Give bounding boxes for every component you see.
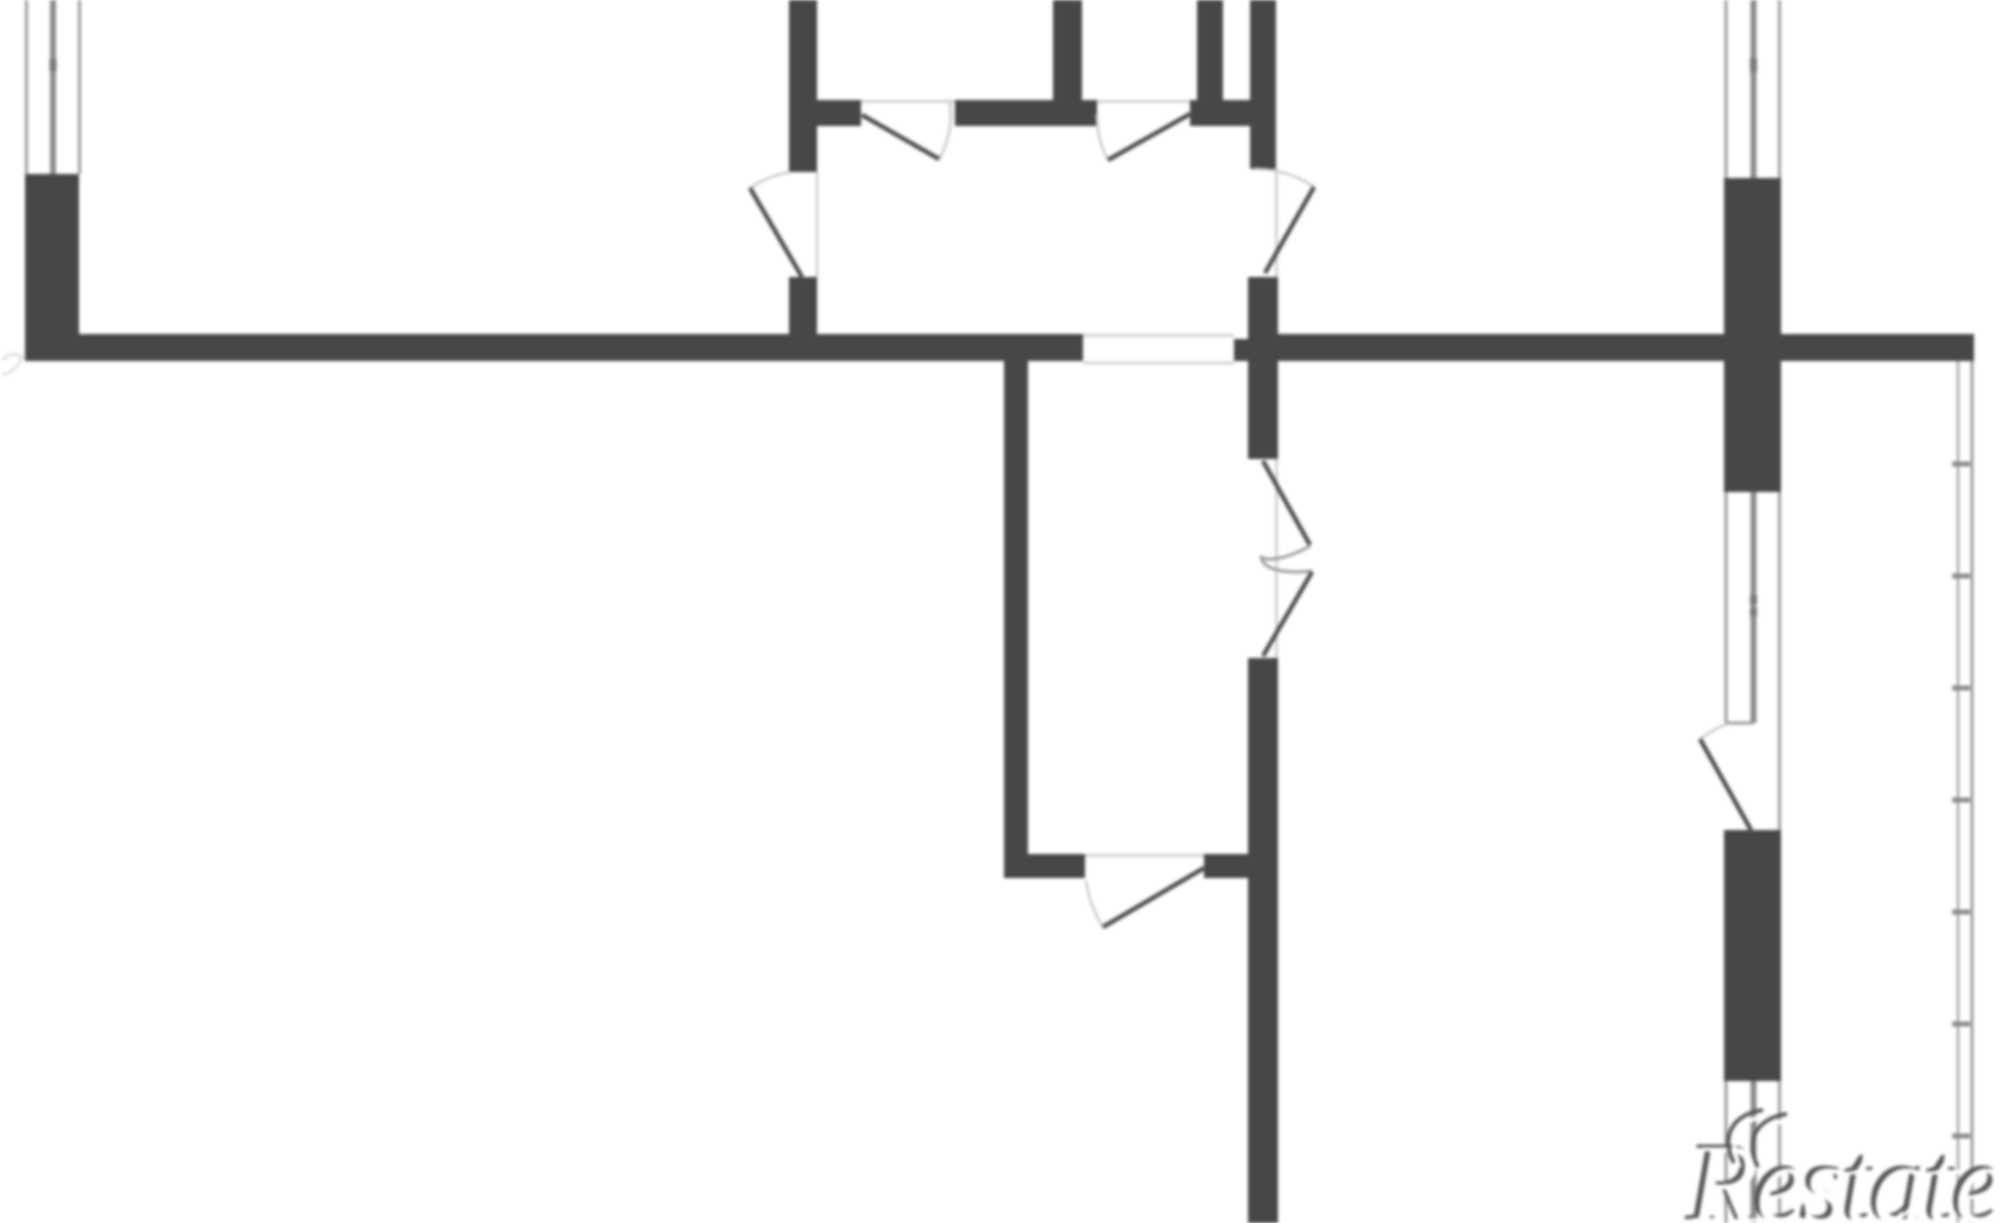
wall middle room bottom segment bbox=[1028, 854, 1085, 878]
window right-mid outer lines bbox=[1726, 492, 1780, 723]
watermark fragment bottom-left bbox=[2, 354, 22, 375]
door accordion lower diagonal bbox=[1263, 572, 1312, 656]
opening frame line top-left door bbox=[816, 172, 819, 277]
door hall 2 arc bbox=[1097, 114, 1108, 160]
door hall 1 leaf bbox=[862, 115, 939, 159]
opening frame line middle room bottom door bbox=[1085, 854, 1204, 857]
window tick right-top bbox=[1750, 58, 1757, 72]
wall right vertical upper bbox=[1248, 334, 1278, 459]
window right-top outer lines bbox=[1726, 0, 1780, 178]
wall hall segment 3 bbox=[1190, 100, 1276, 126]
wall stub below top-left door bbox=[789, 277, 817, 335]
opening frame line accordion door bbox=[1275, 459, 1278, 658]
wall junction tab bbox=[1234, 339, 1248, 361]
watermark swirl bbox=[1728, 1110, 1793, 1171]
wall main horizontal right bbox=[1278, 334, 1974, 361]
door balcony arc bbox=[1700, 724, 1727, 739]
door accordion upper diagonal bbox=[1263, 461, 1310, 545]
door top-left leaf bbox=[750, 188, 802, 277]
wall right window block lower bbox=[1724, 830, 1781, 1081]
wall hall segment 2 bbox=[955, 100, 1097, 126]
door middle-bottom leaf bbox=[1103, 868, 1204, 927]
balcony edge line outer bbox=[1971, 361, 1974, 1223]
wall toilet vertical bbox=[1197, 0, 1223, 101]
wall hall segment 1 bbox=[817, 100, 861, 126]
window ticks right-mid bbox=[1750, 595, 1757, 616]
wall right window block upper bbox=[1724, 178, 1781, 492]
opening frame line door D bbox=[1275, 169, 1278, 277]
door middle-bottom arc bbox=[1086, 881, 1103, 927]
door D leaf bbox=[1265, 187, 1314, 273]
wall stub below door D bbox=[1248, 277, 1278, 334]
door balcony leaf bbox=[1700, 739, 1751, 830]
window left middle line bbox=[50, 0, 56, 174]
door accordion squiggle bbox=[1261, 546, 1312, 572]
wall middle vertical bbox=[1004, 361, 1028, 878]
opening frame line hall door 1 bbox=[861, 100, 955, 103]
wall shaft vertical bbox=[1250, 0, 1276, 169]
wall middle room bottom stub bbox=[1204, 854, 1248, 878]
window tick left bbox=[50, 59, 57, 71]
window right-bottom middle line bbox=[1751, 1081, 1757, 1223]
opening frame lines main wall passage bbox=[1083, 336, 1234, 364]
wall right vertical lower bbox=[1248, 658, 1278, 1223]
balcony rail ticks bbox=[1952, 464, 1970, 1136]
door hall 1 arc bbox=[939, 103, 951, 159]
wall main horizontal left bbox=[25, 334, 1083, 361]
window left outer lines bbox=[27, 0, 80, 174]
wall bath vertical bbox=[1053, 0, 1082, 101]
opening frame line hall door 2 bbox=[1097, 100, 1190, 103]
window right-top middle line bbox=[1751, 0, 1757, 178]
door hall 2 leaf bbox=[1108, 114, 1190, 160]
balcony door jamb line bbox=[1778, 723, 1781, 830]
wall left exterior block bbox=[25, 174, 79, 361]
balcony edge line inner bbox=[1957, 361, 1960, 1223]
wall top-left vertical bbox=[789, 0, 817, 172]
window right-bottom outer lines bbox=[1726, 1081, 1780, 1223]
door D arc bbox=[1253, 169, 1314, 187]
door top-left arc bbox=[750, 172, 790, 188]
window right-mid middle line bbox=[1751, 492, 1757, 723]
